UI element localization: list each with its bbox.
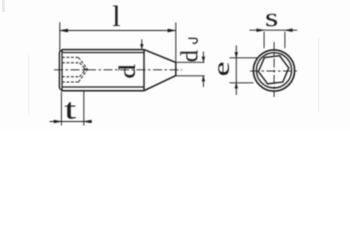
svg-text:e: e xyxy=(209,61,234,76)
svg-text:d: d xyxy=(177,50,204,62)
svg-text:s: s xyxy=(265,2,279,32)
svg-text:l: l xyxy=(112,0,120,33)
svg-text:d: d xyxy=(115,64,140,79)
svg-text:t: t xyxy=(64,93,76,125)
